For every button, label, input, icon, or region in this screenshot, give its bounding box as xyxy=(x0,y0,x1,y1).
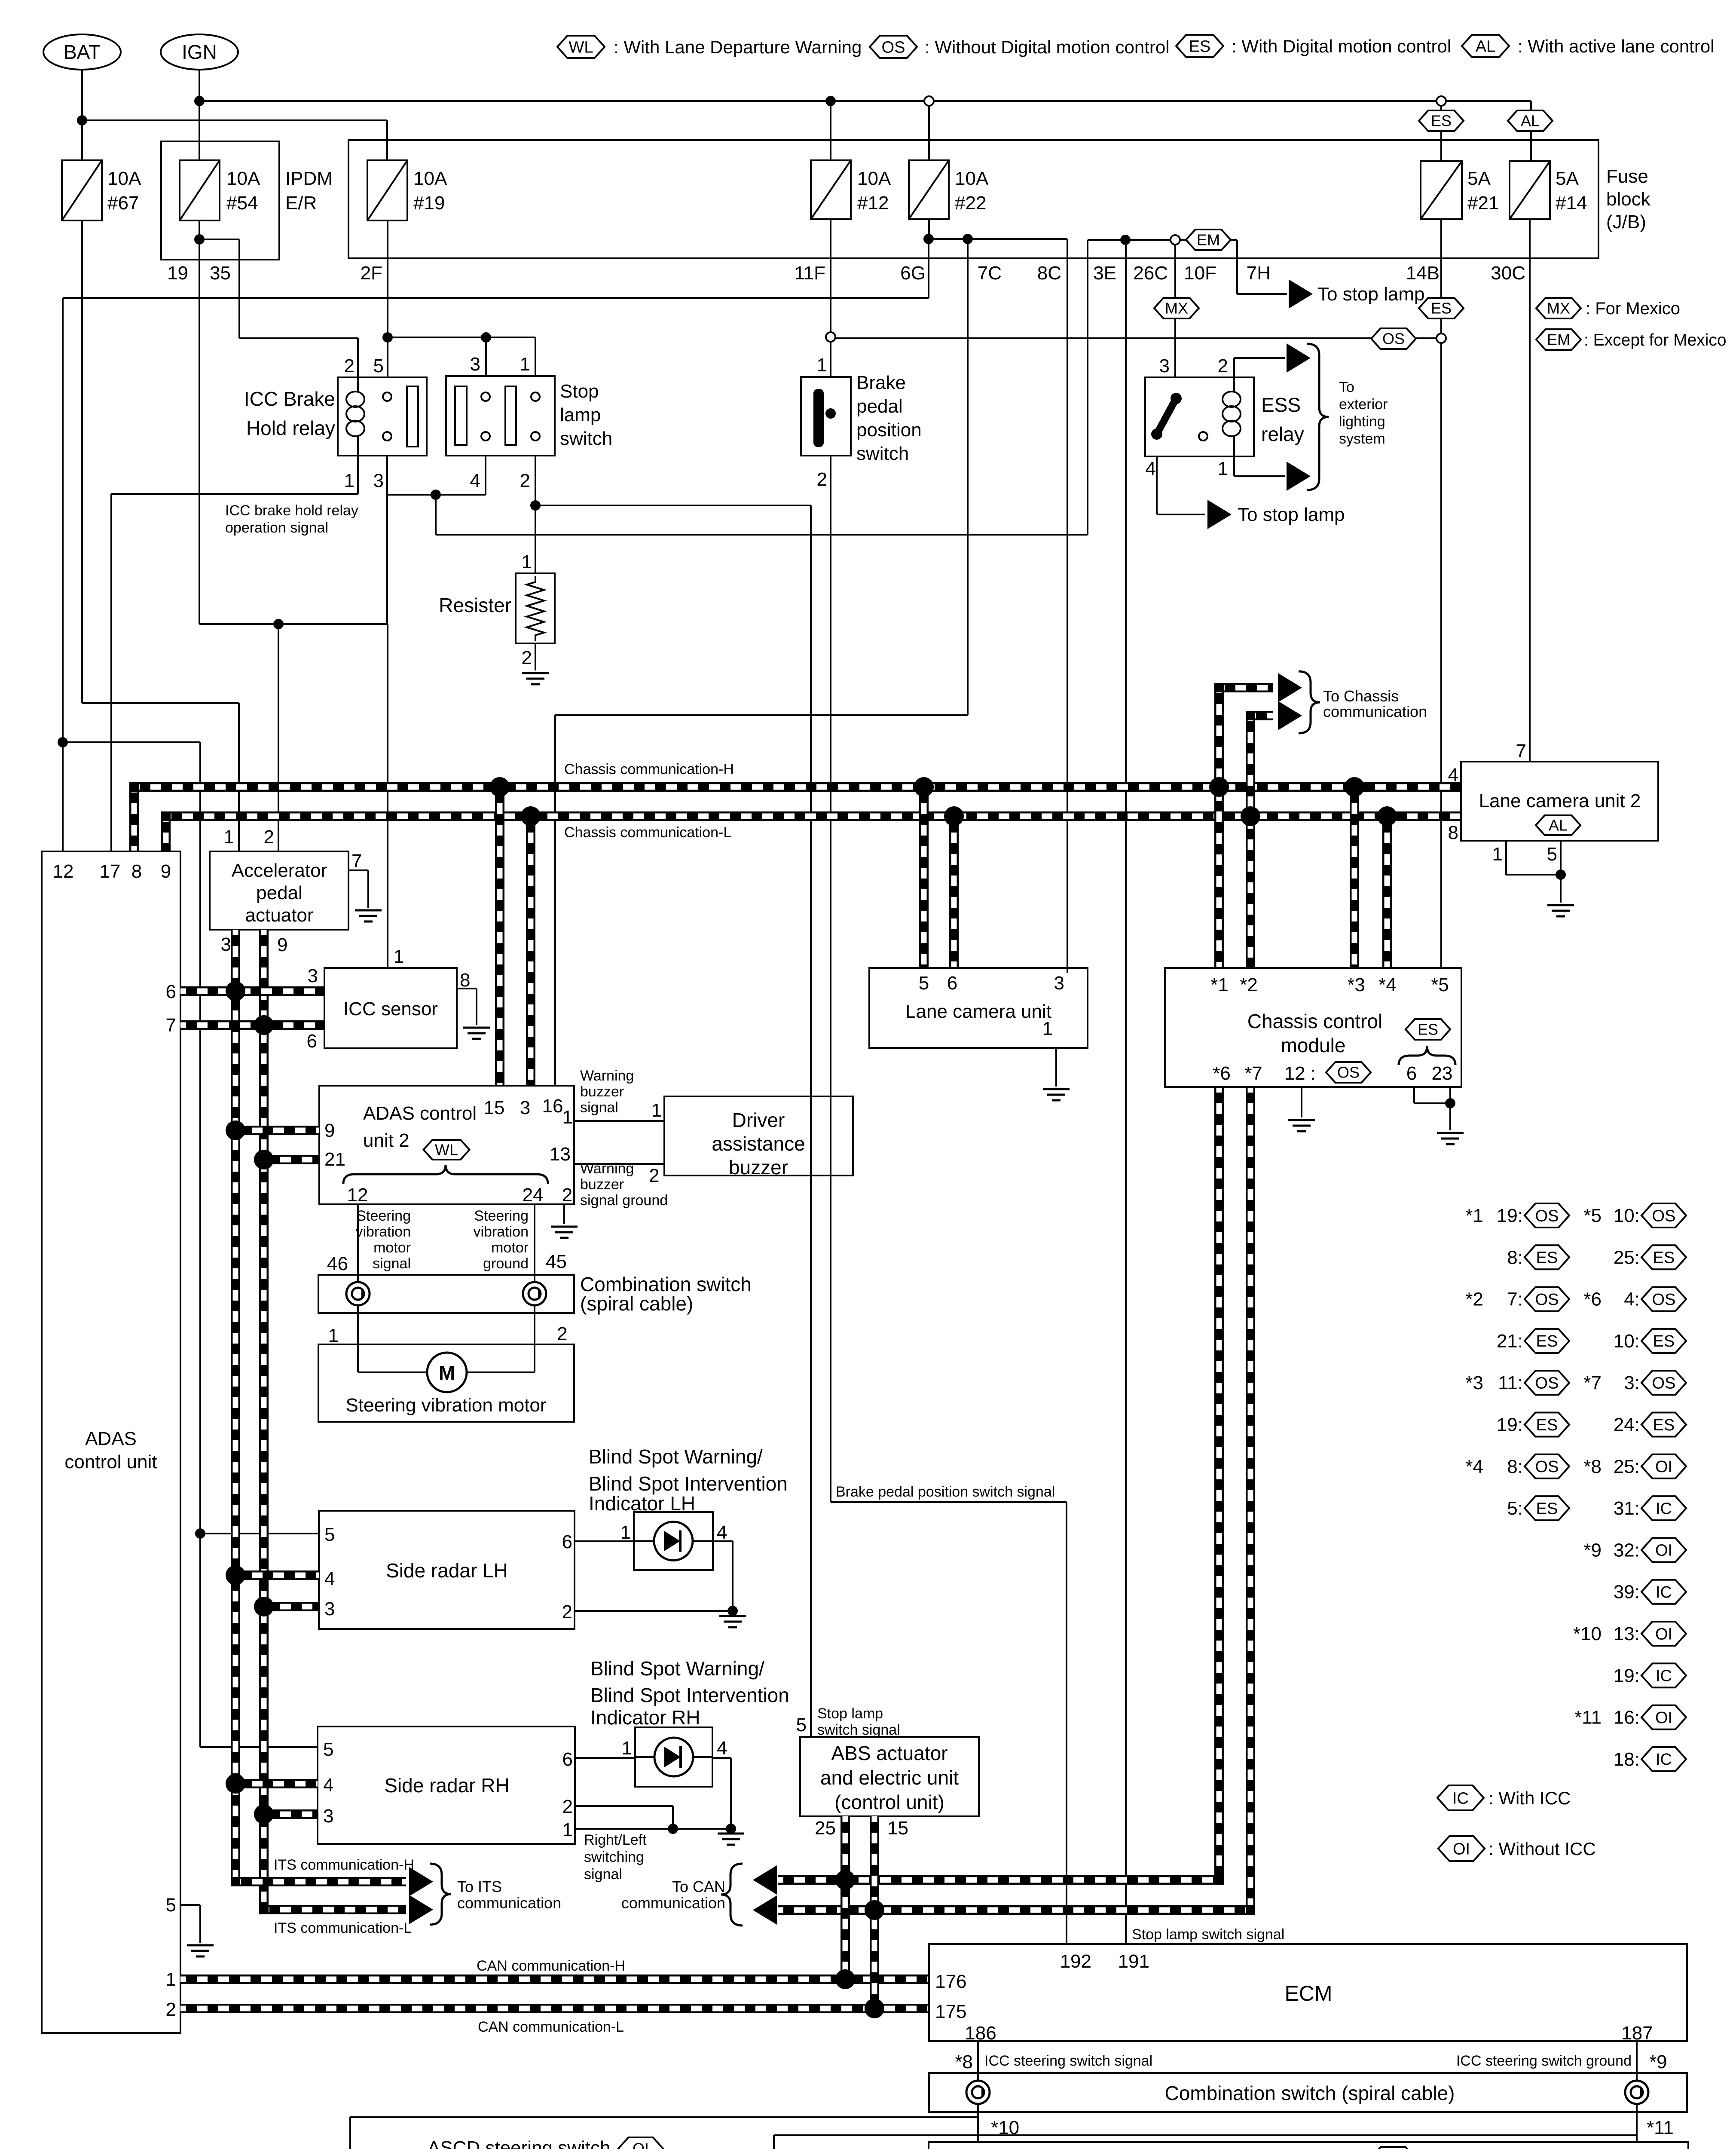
svg-text:7:: 7: xyxy=(1507,1289,1523,1310)
svg-text:4: 4 xyxy=(1146,458,1156,479)
svg-text:ground: ground xyxy=(483,1255,529,1272)
svg-text:4: 4 xyxy=(324,1568,335,1589)
svg-text:12: 12 xyxy=(347,1185,368,1206)
svg-text:6: 6 xyxy=(307,1031,317,1052)
svg-text:motor: motor xyxy=(491,1240,529,1256)
svg-text:*3: *3 xyxy=(1465,1372,1483,1393)
svg-text:To Chassis: To Chassis xyxy=(1323,687,1399,705)
svg-text:11F: 11F xyxy=(794,263,825,284)
svg-text:Combination switch (spiral cab: Combination switch (spiral cable) xyxy=(1165,2082,1455,2104)
svg-text:2: 2 xyxy=(344,355,355,377)
svg-text:IGN: IGN xyxy=(182,41,217,63)
svg-text:#14: #14 xyxy=(1556,193,1587,214)
svg-text:ES: ES xyxy=(1431,300,1452,317)
svg-text:Blind Spot Warning/: Blind Spot Warning/ xyxy=(589,1445,763,1468)
svg-text:communication: communication xyxy=(1323,703,1427,720)
svg-text:ITS communication-H: ITS communication-H xyxy=(274,1857,414,1873)
svg-text:ASCD steering switch: ASCD steering switch xyxy=(428,2137,610,2149)
svg-text:ES: ES xyxy=(1536,1249,1558,1267)
svg-text:*5: *5 xyxy=(1431,974,1449,995)
svg-text:pedal: pedal xyxy=(256,882,303,903)
svg-text:#54: #54 xyxy=(226,193,258,214)
svg-text:8: 8 xyxy=(460,970,470,991)
svg-text:Blind Spot Warning/: Blind Spot Warning/ xyxy=(590,1657,764,1680)
svg-text:AL: AL xyxy=(1549,817,1568,834)
svg-text:*2: *2 xyxy=(1240,974,1258,995)
svg-text:19:: 19: xyxy=(1497,1205,1523,1226)
svg-text:IPDM: IPDM xyxy=(285,168,333,189)
svg-text:3: 3 xyxy=(323,1806,333,1827)
svg-text:: Without ICC: : Without ICC xyxy=(1488,1839,1596,1859)
svg-text:3:: 3: xyxy=(1624,1372,1640,1393)
svg-text:OI: OI xyxy=(1655,1709,1672,1727)
svg-text:8: 8 xyxy=(131,861,142,882)
svg-text:8:: 8: xyxy=(1507,1247,1523,1268)
svg-text:7: 7 xyxy=(1516,741,1526,762)
svg-text:*6: *6 xyxy=(1213,1063,1231,1084)
svg-text:BAT: BAT xyxy=(64,41,101,63)
svg-text:10A: 10A xyxy=(413,168,447,189)
svg-text:10A: 10A xyxy=(955,168,989,189)
svg-text:*4: *4 xyxy=(1465,1456,1483,1477)
svg-text:Right/Left: Right/Left xyxy=(584,1832,647,1848)
svg-text:actuator: actuator xyxy=(245,905,314,926)
svg-text:#67: #67 xyxy=(107,193,139,214)
svg-text:Warning: Warning xyxy=(580,1160,634,1177)
svg-text:186: 186 xyxy=(965,2023,996,2044)
svg-text:ES: ES xyxy=(1536,1332,1558,1350)
svg-text:1: 1 xyxy=(817,355,827,376)
svg-text:3: 3 xyxy=(324,1598,335,1619)
svg-text:8C: 8C xyxy=(1037,263,1061,284)
svg-text:2: 2 xyxy=(562,1796,573,1817)
svg-text:ES: ES xyxy=(1418,1021,1438,1038)
svg-text:switch: switch xyxy=(856,443,909,464)
svg-text:OS: OS xyxy=(1535,1458,1559,1476)
svg-text:: With active lane control: : With active lane control xyxy=(1518,36,1715,56)
svg-text:Chassis communication-H: Chassis communication-H xyxy=(564,761,734,778)
svg-text:switch: switch xyxy=(560,428,612,449)
svg-text:21: 21 xyxy=(324,1149,345,1170)
svg-text:2: 2 xyxy=(520,470,530,491)
svg-text:communication: communication xyxy=(457,1894,561,1912)
svg-text:1: 1 xyxy=(562,1107,573,1128)
svg-text:35: 35 xyxy=(210,263,231,284)
svg-text:Lane camera unit: Lane camera unit xyxy=(905,1001,1051,1022)
svg-text:ADAS: ADAS xyxy=(85,1428,137,1449)
svg-text:15: 15 xyxy=(887,1818,908,1839)
svg-text:communication: communication xyxy=(621,1894,725,1912)
svg-text:187: 187 xyxy=(1621,2023,1653,2044)
svg-text:176: 176 xyxy=(935,1971,966,1992)
svg-text:control unit: control unit xyxy=(64,1451,157,1472)
svg-text:: For Mexico: : For Mexico xyxy=(1586,299,1680,318)
svg-text:2: 2 xyxy=(557,1323,567,1344)
svg-text:1: 1 xyxy=(1218,458,1228,479)
svg-text:7H: 7H xyxy=(1247,263,1271,284)
svg-text:2: 2 xyxy=(562,1601,572,1622)
svg-text:ITS communication-L: ITS communication-L xyxy=(274,1920,412,1936)
svg-text:16:: 16: xyxy=(1614,1707,1640,1728)
svg-text:10A: 10A xyxy=(107,168,141,189)
svg-text:*8: *8 xyxy=(1583,1456,1602,1477)
svg-text:1: 1 xyxy=(224,827,234,848)
svg-text:OI: OI xyxy=(1453,1840,1470,1858)
svg-text:*7: *7 xyxy=(1583,1372,1602,1393)
svg-text:Stop lamp switch signal: Stop lamp switch signal xyxy=(1132,1926,1284,1943)
svg-text:ICC Brake: ICC Brake xyxy=(244,388,335,410)
svg-text:18:: 18: xyxy=(1614,1749,1640,1770)
svg-text:OI: OI xyxy=(633,2140,649,2149)
svg-text:*10: *10 xyxy=(1573,1623,1602,1644)
svg-text:Indicator RH: Indicator RH xyxy=(590,1706,700,1729)
svg-text:*1: *1 xyxy=(1465,1205,1483,1226)
svg-text:#19: #19 xyxy=(413,193,445,214)
svg-text:ESS: ESS xyxy=(1261,394,1301,416)
svg-text:OS: OS xyxy=(1652,1291,1676,1309)
svg-text:OS: OS xyxy=(1535,1207,1559,1225)
svg-text:*3: *3 xyxy=(1347,974,1365,995)
svg-text:6: 6 xyxy=(1406,1063,1417,1084)
svg-text:19:: 19: xyxy=(1497,1414,1523,1436)
svg-text:Hold relay: Hold relay xyxy=(246,417,335,439)
svg-text:45: 45 xyxy=(546,1251,567,1272)
svg-text:block: block xyxy=(1606,189,1651,210)
svg-text:5: 5 xyxy=(324,1524,335,1545)
svg-text:6: 6 xyxy=(562,1531,572,1552)
svg-text:OI: OI xyxy=(1655,1458,1672,1476)
svg-text:Brake pedal position switch si: Brake pedal position switch signal xyxy=(836,1484,1055,1500)
svg-text:OS: OS xyxy=(1535,1291,1559,1309)
svg-text:#21: #21 xyxy=(1467,193,1499,214)
svg-text:1: 1 xyxy=(620,1522,631,1543)
svg-text:13: 13 xyxy=(550,1144,571,1165)
svg-text:11:: 11: xyxy=(1498,1372,1523,1393)
svg-text:buzzer: buzzer xyxy=(580,1176,624,1193)
svg-text:CAN communication-H: CAN communication-H xyxy=(477,1958,625,1974)
svg-text:unit 2: unit 2 xyxy=(363,1130,410,1151)
svg-text:EM: EM xyxy=(1197,231,1220,249)
svg-text:To ITS: To ITS xyxy=(457,1878,502,1895)
svg-text:*6: *6 xyxy=(1583,1289,1602,1310)
svg-text:7: 7 xyxy=(351,851,362,872)
svg-text:Accelerator: Accelerator xyxy=(232,860,327,881)
svg-text:2: 2 xyxy=(817,469,827,490)
svg-text:AL: AL xyxy=(1521,112,1540,130)
svg-text:ICC steering switch: ICC steering switch xyxy=(1199,2147,1362,2149)
svg-text:OS: OS xyxy=(1652,1375,1676,1393)
svg-text:25:: 25: xyxy=(1614,1247,1640,1268)
svg-text:*2: *2 xyxy=(1465,1289,1483,1310)
svg-text:*1: *1 xyxy=(1210,974,1229,995)
svg-text:lamp: lamp xyxy=(560,404,601,426)
svg-text:IC: IC xyxy=(1656,1500,1672,1518)
svg-text:: Except for Mexico: : Except for Mexico xyxy=(1584,331,1727,349)
svg-text:5: 5 xyxy=(323,1739,333,1760)
svg-text:(spiral cable): (spiral cable) xyxy=(580,1292,693,1315)
svg-text:MX: MX xyxy=(1547,300,1570,317)
svg-text:M: M xyxy=(439,1362,455,1384)
svg-text:7: 7 xyxy=(166,1015,176,1036)
svg-text:: With Digital motion control: : With Digital motion control xyxy=(1232,36,1451,56)
svg-text:1: 1 xyxy=(520,354,530,375)
svg-text:2: 2 xyxy=(264,827,274,848)
svg-text:4: 4 xyxy=(470,470,480,491)
svg-text:and electric unit: and electric unit xyxy=(820,1766,959,1789)
svg-text:Warning: Warning xyxy=(580,1068,634,1084)
svg-text:MX: MX xyxy=(1165,300,1188,317)
svg-text:25: 25 xyxy=(815,1818,836,1839)
svg-text:9: 9 xyxy=(324,1120,335,1141)
svg-text:14B: 14B xyxy=(1406,263,1440,284)
svg-text:ES: ES xyxy=(1653,1249,1675,1267)
svg-text:EM: EM xyxy=(1547,331,1570,349)
svg-text:OS: OS xyxy=(1535,1375,1559,1393)
svg-text:IC: IC xyxy=(1656,1667,1672,1685)
svg-text:relay: relay xyxy=(1261,423,1304,445)
svg-text:operation signal: operation signal xyxy=(225,520,328,536)
svg-text:175: 175 xyxy=(935,2001,966,2022)
svg-text:4: 4 xyxy=(1448,765,1458,786)
svg-text:1: 1 xyxy=(522,551,532,572)
svg-text:Stop: Stop xyxy=(560,381,599,402)
svg-text:Chassis communication-L: Chassis communication-L xyxy=(564,824,731,841)
svg-text:10F: 10F xyxy=(1184,263,1216,284)
svg-text:15: 15 xyxy=(484,1097,505,1118)
svg-text:OI: OI xyxy=(1655,1625,1672,1643)
svg-text:4: 4 xyxy=(717,1738,727,1759)
svg-text:5:: 5: xyxy=(1507,1498,1523,1519)
svg-text:OS: OS xyxy=(1382,330,1405,348)
svg-text:3: 3 xyxy=(470,354,480,375)
svg-text:2: 2 xyxy=(166,1999,176,2020)
svg-text:module: module xyxy=(1281,1034,1346,1056)
svg-text:OI: OI xyxy=(1655,1542,1672,1560)
svg-text:21:: 21: xyxy=(1497,1331,1523,1352)
svg-text:signal: signal xyxy=(584,1866,622,1883)
svg-text:5: 5 xyxy=(166,1895,176,1916)
svg-text:*4: *4 xyxy=(1378,974,1397,995)
svg-text:ICC sensor: ICC sensor xyxy=(343,998,438,1019)
svg-text:*11: *11 xyxy=(1574,1707,1602,1728)
svg-text:39:: 39: xyxy=(1614,1582,1640,1603)
svg-text:pedal: pedal xyxy=(856,396,903,417)
svg-text:vibration: vibration xyxy=(355,1224,411,1240)
svg-text:E/R: E/R xyxy=(285,193,317,214)
svg-text:1: 1 xyxy=(166,1969,176,1990)
svg-text:*9: *9 xyxy=(1649,2051,1667,2072)
svg-text:motor: motor xyxy=(373,1240,411,1256)
svg-text:1: 1 xyxy=(1492,844,1503,865)
svg-text:2: 2 xyxy=(522,647,532,668)
svg-text:10A: 10A xyxy=(226,168,260,189)
svg-text:OS: OS xyxy=(1652,1207,1676,1225)
svg-text:assistance: assistance xyxy=(712,1133,805,1155)
svg-text:4: 4 xyxy=(717,1522,727,1543)
svg-text:vibration: vibration xyxy=(473,1224,529,1240)
svg-text:exterior: exterior xyxy=(1339,396,1388,413)
svg-text:Fuse: Fuse xyxy=(1606,166,1648,187)
svg-text:1: 1 xyxy=(562,1819,573,1840)
svg-text:12 :: 12 : xyxy=(1284,1063,1316,1084)
svg-text:: With Lane Departure Warning: : With Lane Departure Warning xyxy=(614,37,862,57)
svg-text:*7: *7 xyxy=(1244,1063,1262,1084)
svg-text:system: system xyxy=(1339,431,1385,447)
svg-text:position: position xyxy=(856,419,922,441)
svg-text:Chassis control: Chassis control xyxy=(1247,1010,1382,1032)
svg-text:WL: WL xyxy=(569,38,593,56)
svg-text:Blind Spot Intervention: Blind Spot Intervention xyxy=(589,1472,788,1495)
svg-text:Steering vibration motor: Steering vibration motor xyxy=(345,1395,546,1416)
svg-text:1: 1 xyxy=(1042,1018,1053,1039)
svg-text:ES: ES xyxy=(1653,1416,1675,1434)
svg-text:46: 46 xyxy=(327,1253,348,1274)
svg-text:19: 19 xyxy=(167,263,188,284)
svg-text:To stop lamp: To stop lamp xyxy=(1238,504,1345,525)
svg-text:ES: ES xyxy=(1189,37,1211,55)
svg-text:*8: *8 xyxy=(955,2051,973,2072)
svg-text:5: 5 xyxy=(1547,844,1557,865)
svg-text:OS: OS xyxy=(882,38,905,56)
svg-text:10:: 10: xyxy=(1614,1205,1640,1226)
svg-text:2: 2 xyxy=(649,1165,659,1186)
svg-text:10A: 10A xyxy=(857,168,891,189)
svg-text:ICC steering switch ground: ICC steering switch ground xyxy=(1456,2053,1632,2069)
svg-text:IC: IC xyxy=(1452,1789,1469,1807)
svg-text:Driver: Driver xyxy=(732,1109,785,1131)
svg-text:24: 24 xyxy=(523,1185,544,1206)
svg-text:*5: *5 xyxy=(1583,1205,1602,1226)
svg-text:26C: 26C xyxy=(1133,263,1168,284)
svg-text:3: 3 xyxy=(1159,355,1170,377)
svg-text:ABS actuator: ABS actuator xyxy=(831,1742,947,1764)
svg-text:#12: #12 xyxy=(857,193,889,214)
svg-text:2F: 2F xyxy=(361,263,382,284)
svg-text:3: 3 xyxy=(520,1097,530,1118)
svg-text:17: 17 xyxy=(100,861,121,882)
svg-text:CAN communication-L: CAN communication-L xyxy=(478,2019,624,2035)
svg-text:3E: 3E xyxy=(1093,263,1116,284)
svg-text:5: 5 xyxy=(919,973,929,994)
svg-text:Steering: Steering xyxy=(356,1208,411,1224)
svg-text:3: 3 xyxy=(373,470,384,491)
svg-text:24:: 24: xyxy=(1614,1414,1640,1436)
svg-text:Resister: Resister xyxy=(439,594,511,616)
svg-text:6: 6 xyxy=(166,981,176,1002)
svg-text:2: 2 xyxy=(1218,355,1228,377)
svg-text:13:: 13: xyxy=(1614,1623,1640,1644)
svg-text:buzzer: buzzer xyxy=(580,1084,624,1100)
svg-text:Stop lamp: Stop lamp xyxy=(817,1705,883,1722)
svg-text:5A: 5A xyxy=(1556,168,1579,189)
svg-text:signal ground: signal ground xyxy=(580,1192,668,1209)
svg-text:(J/B): (J/B) xyxy=(1606,211,1646,233)
svg-text:signal: signal xyxy=(580,1099,618,1116)
svg-text:Side radar RH: Side radar RH xyxy=(384,1774,509,1797)
svg-text:1: 1 xyxy=(344,470,355,491)
svg-text:191: 191 xyxy=(1118,1951,1149,1972)
svg-text:(control unit): (control unit) xyxy=(834,1791,944,1813)
svg-text:*11: *11 xyxy=(1647,2117,1674,2138)
svg-text:8: 8 xyxy=(1448,822,1458,843)
svg-text:To CAN: To CAN xyxy=(672,1878,725,1895)
svg-text:6G: 6G xyxy=(900,263,926,284)
svg-text:3: 3 xyxy=(221,934,231,955)
svg-text:3: 3 xyxy=(1054,973,1064,994)
svg-text:*9: *9 xyxy=(1583,1540,1602,1561)
svg-text:25:: 25: xyxy=(1614,1456,1640,1477)
svg-text:signal: signal xyxy=(373,1255,411,1272)
svg-text:32:: 32: xyxy=(1614,1540,1640,1561)
svg-text:switching: switching xyxy=(584,1849,644,1865)
svg-text:5: 5 xyxy=(373,355,384,377)
svg-text:9: 9 xyxy=(161,861,171,882)
svg-text:1: 1 xyxy=(394,946,404,967)
svg-text:OS: OS xyxy=(1337,1064,1360,1081)
svg-text:ADAS control: ADAS control xyxy=(363,1103,477,1124)
svg-text:ES: ES xyxy=(1536,1416,1558,1434)
svg-text:19:: 19: xyxy=(1614,1665,1640,1686)
svg-text:ECM: ECM xyxy=(1284,1981,1332,2005)
svg-text:23: 23 xyxy=(1432,1063,1453,1084)
svg-text:buzzer: buzzer xyxy=(729,1156,788,1179)
svg-text:7C: 7C xyxy=(978,263,1002,284)
svg-text:3: 3 xyxy=(308,965,318,986)
svg-text:4:: 4: xyxy=(1624,1289,1640,1310)
svg-text:AL: AL xyxy=(1476,37,1495,55)
svg-text:9: 9 xyxy=(277,934,287,955)
svg-text:ES: ES xyxy=(1431,112,1452,130)
svg-text:2: 2 xyxy=(562,1185,572,1206)
svg-text:4: 4 xyxy=(323,1775,333,1796)
svg-text:192: 192 xyxy=(1060,1951,1091,1972)
svg-text:ICC brake hold relay: ICC brake hold relay xyxy=(225,502,358,519)
svg-text:1: 1 xyxy=(622,1738,632,1759)
svg-text:WL: WL xyxy=(435,1141,458,1159)
svg-text:Blind Spot Intervention: Blind Spot Intervention xyxy=(590,1684,789,1706)
svg-text:: Without Digital motion contr: : Without Digital motion control xyxy=(925,37,1170,57)
svg-text:8:: 8: xyxy=(1507,1456,1523,1477)
svg-text:10:: 10: xyxy=(1614,1331,1640,1352)
svg-text:ES: ES xyxy=(1536,1500,1558,1518)
svg-text:To stop lamp: To stop lamp xyxy=(1317,284,1424,305)
svg-text:IC: IC xyxy=(1656,1583,1672,1601)
svg-text:Steering: Steering xyxy=(474,1208,529,1224)
svg-text:Brake: Brake xyxy=(856,372,906,393)
svg-text:ICC steering switch signal: ICC steering switch signal xyxy=(984,2053,1152,2069)
svg-text:6: 6 xyxy=(562,1749,573,1770)
svg-text:IC: IC xyxy=(1656,1751,1672,1769)
svg-text:1: 1 xyxy=(651,1100,662,1121)
svg-text:5: 5 xyxy=(796,1714,807,1736)
svg-text:lighting: lighting xyxy=(1339,413,1385,430)
svg-text:To: To xyxy=(1339,379,1354,395)
svg-text:12: 12 xyxy=(53,861,74,882)
svg-text:6: 6 xyxy=(947,973,957,994)
svg-text:1: 1 xyxy=(328,1325,339,1346)
svg-text:Side radar LH: Side radar LH xyxy=(386,1559,508,1582)
svg-text:31:: 31: xyxy=(1614,1498,1640,1519)
svg-text:Lane camera unit 2: Lane camera unit 2 xyxy=(1479,790,1641,811)
svg-text:ES: ES xyxy=(1653,1332,1675,1350)
svg-text:: With ICC: : With ICC xyxy=(1488,1788,1571,1808)
svg-text:16: 16 xyxy=(542,1096,563,1117)
svg-text:30C: 30C xyxy=(1491,263,1525,284)
svg-text:switch signal: switch signal xyxy=(817,1722,900,1738)
svg-text:#22: #22 xyxy=(955,193,986,214)
svg-text:5A: 5A xyxy=(1467,168,1491,189)
